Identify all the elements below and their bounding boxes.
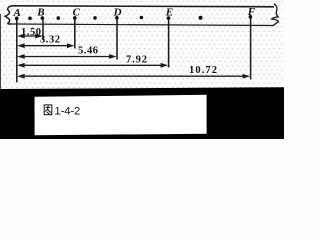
svg-text:B: B	[36, 6, 44, 18]
point B dot	[41, 16, 45, 20]
point E dot	[167, 16, 171, 20]
dimension line 10.72	[23, 75, 246, 77]
extension line B	[42, 20, 44, 40]
svg-text:D: D	[113, 6, 122, 18]
svg-text:3.32: 3.32	[40, 34, 60, 45]
page left edge artifact	[0, 14, 2, 89]
halftone background	[0, 0, 284, 89]
point A dot	[15, 17, 19, 21]
mid dot BC	[57, 16, 61, 20]
svg-text:F: F	[247, 6, 256, 18]
dimension line 1.50	[23, 35, 38, 37]
svg-text:A: A	[13, 7, 21, 19]
point C dot	[73, 16, 77, 20]
extension line A	[16, 20, 18, 82]
black caption bar	[0, 87, 284, 139]
extension line F	[250, 19, 252, 80]
caption glyph 图	[44, 105, 52, 115]
mid dot CD	[93, 16, 97, 20]
dimension line 3.32	[23, 45, 70, 47]
svg-text:1-4-2: 1-4-2	[54, 106, 80, 118]
extension line E	[168, 20, 170, 68]
svg-text:1.50: 1.50	[21, 27, 41, 38]
extension line C	[74, 20, 76, 49]
svg-text:10.72: 10.72	[189, 65, 217, 76]
point F dot	[249, 15, 253, 19]
svg-text:5.46: 5.46	[78, 46, 98, 57]
tape torn right edge	[272, 4, 279, 26]
svg-text:7.92: 7.92	[126, 54, 147, 65]
white caption box	[35, 95, 207, 136]
mid dot EF	[199, 16, 203, 20]
tape top edge	[12, 6, 274, 7]
svg-text:E: E	[165, 7, 173, 19]
dimension line 5.46	[23, 56, 112, 58]
tape bottom edge	[11, 24, 274, 26]
point D dot	[115, 16, 119, 20]
mid dot AB	[28, 17, 32, 21]
dimension line 7.92	[23, 64, 164, 66]
mid dot DE	[140, 16, 144, 20]
tape torn left edge	[5, 6, 12, 24]
extension line D	[116, 20, 118, 60]
svg-text:C: C	[73, 7, 81, 19]
